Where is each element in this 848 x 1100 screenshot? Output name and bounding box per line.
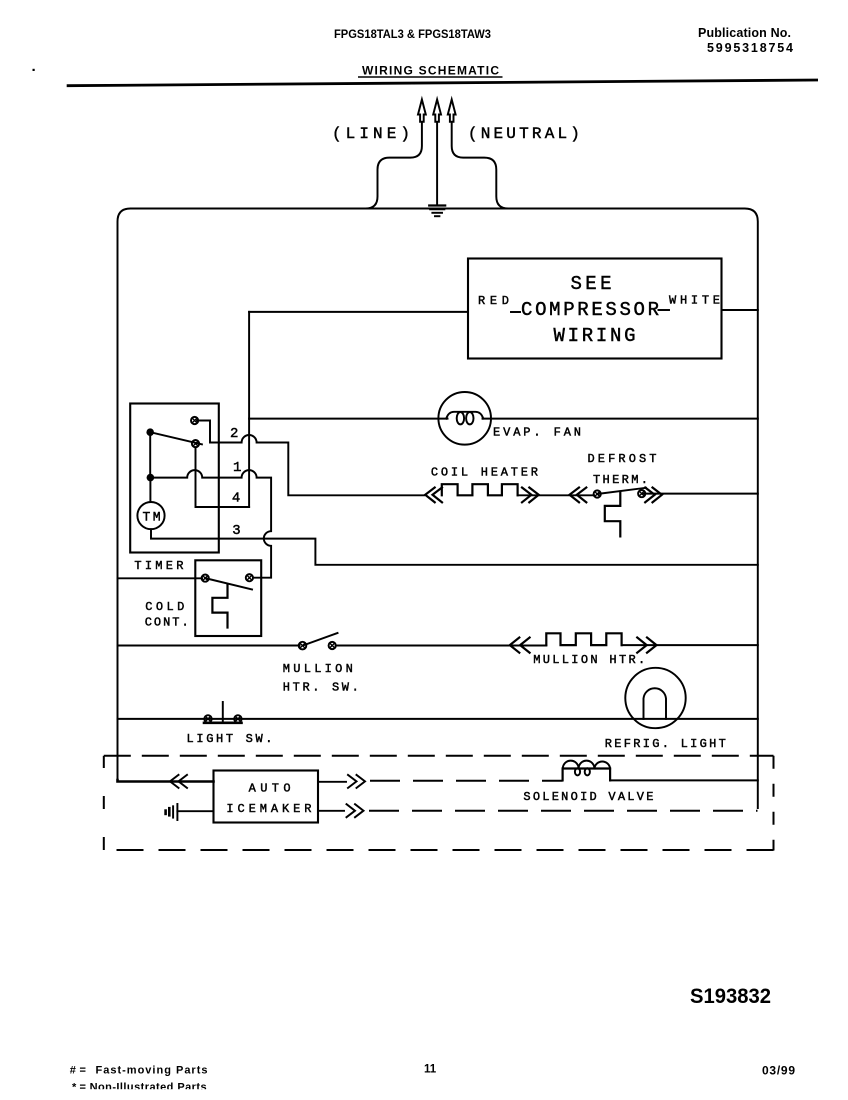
plug prong arrow middle <box>433 100 441 122</box>
wire stub left inside box <box>511 311 520 313</box>
svg-text:COIL HEATER: COIL HEATER <box>431 466 538 480</box>
mullion row wire right <box>622 644 758 646</box>
svg-text:SEE: SEE <box>571 273 612 295</box>
svg-text:5995318754: 5995318754 <box>707 41 793 55</box>
cold control arm <box>205 578 252 589</box>
compressor feed wire (vertical) <box>248 312 250 507</box>
timer contact dot upper <box>146 428 154 436</box>
footer non-illustrated parts (cut off) <box>72 1082 207 1094</box>
svg-text:03/99: 03/99 <box>762 1064 795 1078</box>
svg-text:=: = <box>80 1065 86 1077</box>
timer terminal pin2 <box>191 417 198 424</box>
defrost sensor element <box>605 492 621 537</box>
svg-text:MULLION: MULLION <box>283 662 353 676</box>
timer internal wire <box>149 432 151 477</box>
timer motor TM <box>137 502 164 529</box>
timer box <box>130 404 219 553</box>
svg-text:Publication No.: Publication No. <box>698 26 791 40</box>
dashed return wire <box>369 810 758 812</box>
timer pin 1 row wire <box>150 470 271 578</box>
timer contact dot lower <box>147 474 155 482</box>
mullion switch terminal right <box>329 642 336 649</box>
neutral wire <box>452 122 509 209</box>
svg-text:WHITE: WHITE <box>669 294 720 308</box>
mullion heater resistor <box>546 633 621 645</box>
svg-text:FPGS18TAL3 & FPGS18TAW3: FPGS18TAL3 & FPGS18TAW3 <box>334 27 491 41</box>
light switch terminal right <box>234 715 241 722</box>
icemaker ground wire <box>177 810 213 812</box>
evap fan motor <box>438 392 491 445</box>
stray mark <box>33 69 35 71</box>
red wire <box>249 311 468 313</box>
svg-text:11: 11 <box>424 1064 437 1076</box>
plug prong arrow left <box>418 100 426 122</box>
timer pin 2 wire <box>197 421 424 496</box>
svg-text:S193832: S193832 <box>690 985 771 1008</box>
svg-text:(NEUTRAL): (NEUTRAL) <box>468 125 580 143</box>
line wire <box>366 122 422 209</box>
svg-text:Fast-moving Parts: Fast-moving Parts <box>96 1065 208 1077</box>
icemaker connector out 1 <box>348 775 365 788</box>
icemaker out wire 1 <box>318 781 346 783</box>
mullion row wire left <box>118 645 300 647</box>
defrost thermostat terminal left <box>594 490 601 497</box>
defrost thermostat arm <box>597 488 646 494</box>
light switch terminal left <box>204 715 211 722</box>
dashed wire to solenoid <box>370 780 563 782</box>
coil heater connector left <box>425 488 442 503</box>
svg-text:COLD: COLD <box>145 600 184 614</box>
defrost connector right <box>645 488 662 503</box>
light switch plunger <box>222 702 224 723</box>
svg-text:CONT.: CONT. <box>145 616 189 630</box>
coil heater connector right <box>522 488 539 503</box>
auto icemaker box <box>214 771 319 823</box>
timer terminal pin1 <box>192 440 199 447</box>
dashed icemaker compartment box <box>104 756 774 851</box>
svg-text:3: 3 <box>232 523 240 539</box>
solenoid to bus wire <box>610 779 758 781</box>
svg-text:REFRIG. LIGHT: REFRIG. LIGHT <box>605 737 726 751</box>
icemaker ground symbol <box>166 804 178 820</box>
publication no <box>698 26 793 55</box>
light row wire <box>118 718 758 720</box>
icemaker feed wire <box>118 780 214 782</box>
solenoid valve coil <box>563 761 611 781</box>
cold control terminal right <box>246 574 253 581</box>
coil heater resistor <box>442 484 518 495</box>
compressor box <box>468 259 722 359</box>
svg-text:LIGHT SW.: LIGHT SW. <box>187 732 273 746</box>
white wire <box>722 309 758 311</box>
plug prong arrow right <box>448 100 456 122</box>
defrost thermostat terminal right <box>638 490 645 497</box>
svg-text:1: 1 <box>233 460 241 476</box>
footer fast-moving parts <box>70 1065 208 1077</box>
svg-text:2: 2 <box>230 426 238 442</box>
icemaker connector left <box>170 775 187 788</box>
timer pin 4 wire <box>196 447 250 507</box>
cold control terminal left <box>202 575 209 582</box>
main cabinet outline: left bus, top edge, right bus <box>118 209 758 809</box>
svg-text:MULLION HTR.: MULLION HTR. <box>533 653 645 667</box>
svg-text:DEFROST: DEFROST <box>588 452 657 466</box>
mullion switch arm <box>304 633 338 645</box>
svg-text:4: 4 <box>232 491 240 507</box>
cold control feed wire <box>118 577 203 579</box>
icemaker out wire 2 <box>318 810 344 812</box>
mullion switch terminal left <box>299 642 307 650</box>
cold control sensor element <box>212 585 227 628</box>
svg-text:TIMER: TIMER <box>134 559 183 573</box>
coil heater to defrost wire <box>518 494 594 496</box>
ground lead <box>436 122 438 205</box>
defrost to bus wire <box>642 493 758 495</box>
cold control box <box>195 560 261 636</box>
svg-text:THERM.: THERM. <box>593 473 648 487</box>
timer contact arm <box>150 432 202 444</box>
svg-text:AUTO: AUTO <box>249 782 291 796</box>
svg-text:TM: TM <box>143 510 161 525</box>
top rule <box>67 80 818 86</box>
svg-text:(LINE): (LINE) <box>332 125 410 143</box>
svg-text:WIRING: WIRING <box>554 325 636 347</box>
timer pin 3 wire <box>151 529 758 565</box>
light switch bar <box>204 721 242 724</box>
defrost connector left <box>570 488 587 503</box>
refrigerator light <box>625 668 685 728</box>
ground symbol <box>429 206 445 217</box>
cut mask <box>55 1089 245 1100</box>
compressor box text <box>521 273 659 347</box>
svg-text:ICEMAKER: ICEMAKER <box>226 802 311 816</box>
svg-text:#: # <box>70 1065 76 1077</box>
TM lead <box>149 478 151 502</box>
subtitle WIRING SCHEMATIC <box>358 64 503 78</box>
svg-text:EVAP. FAN: EVAP. FAN <box>493 426 581 440</box>
svg-text:HTR. SW.: HTR. SW. <box>283 681 359 695</box>
mullion heater connector right <box>637 638 656 653</box>
wire stub right inside box <box>659 309 670 311</box>
evap fan row wire right <box>483 418 758 420</box>
evap fan row wire left <box>249 418 447 420</box>
mullion heater connector left <box>510 638 530 653</box>
svg-text:WIRING SCHEMATIC: WIRING SCHEMATIC <box>362 64 499 78</box>
svg-text:COMPRESSOR: COMPRESSOR <box>521 299 659 321</box>
svg-text:RED: RED <box>478 294 509 308</box>
svg-text:SOLENOID VALVE: SOLENOID VALVE <box>523 790 653 804</box>
icemaker connector out 2 <box>347 804 364 817</box>
mullion row wire mid <box>336 645 547 647</box>
